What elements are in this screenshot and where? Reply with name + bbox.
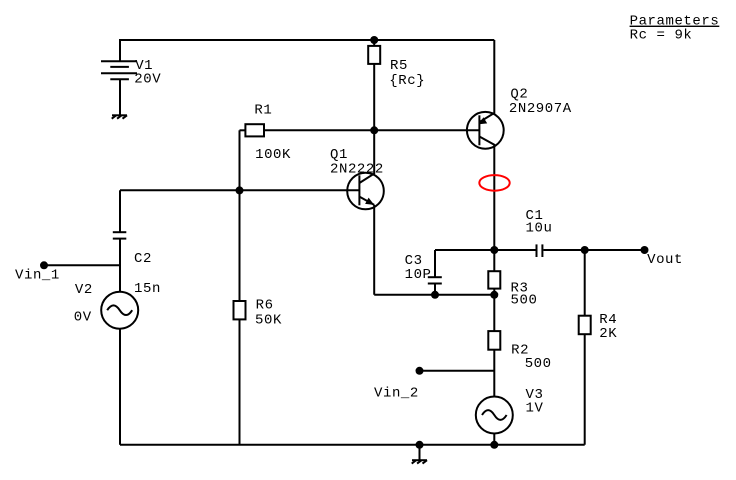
transistor Q1 bbox=[347, 130, 384, 209]
wire battery to ground bbox=[119, 79, 121, 115]
svg-text:10P: 10P bbox=[405, 267, 432, 283]
capacitor C1 bbox=[537, 244, 543, 257]
resistor R4 bbox=[579, 250, 591, 445]
junction node C1 / R4 bbox=[581, 246, 589, 254]
svg-text:2N2907A: 2N2907A bbox=[509, 101, 572, 117]
source V2 bbox=[101, 292, 138, 329]
svg-text:500: 500 bbox=[525, 356, 552, 372]
junction node R5 top bbox=[370, 36, 378, 44]
junction node R3 bottom bbox=[490, 291, 498, 299]
svg-text:1V: 1V bbox=[526, 401, 544, 417]
wire R1 to Q2 base bbox=[264, 129, 479, 131]
wire C2 to V2 bbox=[119, 239, 121, 292]
svg-text:50K: 50K bbox=[255, 312, 282, 328]
svg-text:R5: R5 bbox=[390, 58, 408, 74]
svg-text:C2: C2 bbox=[134, 251, 152, 267]
capacitor C2 bbox=[113, 232, 127, 238]
svg-text:Q2: Q2 bbox=[510, 87, 528, 103]
resistor R6 bbox=[234, 190, 246, 444]
svg-text:20V: 20V bbox=[134, 71, 161, 87]
junction node R1/R6 bbox=[236, 186, 244, 194]
svg-text:2K: 2K bbox=[599, 326, 617, 342]
svg-text:10u: 10u bbox=[526, 220, 553, 236]
wire C3 top rail bbox=[435, 249, 536, 251]
resistor R5 bbox=[368, 40, 380, 130]
capacitor C3 bbox=[428, 250, 442, 295]
svg-text:100K: 100K bbox=[255, 147, 291, 163]
wire Vin_2 bbox=[420, 370, 495, 372]
wire ground stub bbox=[419, 445, 421, 460]
svg-text:15n: 15n bbox=[134, 281, 161, 297]
transistor Q2 bbox=[467, 40, 504, 250]
wire Vin_1 bbox=[44, 264, 120, 266]
svg-text:0V: 0V bbox=[74, 309, 92, 325]
wire bottom rail bbox=[120, 444, 585, 446]
node Vin_2 terminal bbox=[416, 367, 424, 375]
svg-text:500: 500 bbox=[511, 292, 538, 308]
wire emitter rail to R3 bottom bbox=[374, 294, 494, 296]
wire Q1 base rail bbox=[120, 189, 359, 191]
svg-text:R6: R6 bbox=[256, 297, 274, 313]
arrowhead Q1 emitter bbox=[365, 198, 374, 205]
junction node C3 bottom bbox=[431, 291, 439, 299]
svg-text:R1: R1 bbox=[254, 102, 272, 118]
ground (under V1) bbox=[112, 115, 127, 118]
svg-text:Q1: Q1 bbox=[330, 147, 348, 163]
ground (bottom) bbox=[412, 460, 427, 463]
wire top rail bbox=[120, 39, 494, 41]
wire left branch down to C2 bbox=[119, 190, 121, 232]
node Vin_1 terminal bbox=[40, 261, 48, 269]
wire C1 to Vout bbox=[543, 249, 644, 251]
wire V3 to bottom rail bbox=[493, 433, 495, 445]
svg-text:Rc = 9k: Rc = 9k bbox=[630, 28, 693, 44]
resistor R1 bbox=[245, 124, 264, 136]
wire Q1 emitter down bbox=[373, 205, 375, 295]
battery V1 bbox=[101, 61, 137, 79]
current probe marker (red ellipse) bbox=[479, 175, 509, 191]
node Vout terminal bbox=[641, 246, 649, 254]
svg-text:Vin_1: Vin_1 bbox=[15, 268, 60, 284]
arrowhead Q2 emitter bbox=[479, 117, 487, 124]
junction node V3 bottom bbox=[490, 441, 498, 449]
svg-text:V2: V2 bbox=[75, 282, 93, 298]
source V3 bbox=[476, 397, 513, 434]
junction node R5 bottom bbox=[370, 126, 378, 134]
wire R1 corner down to junction bbox=[239, 130, 241, 190]
resistor R3 bbox=[488, 250, 500, 295]
svg-text:Vin_2: Vin_2 bbox=[374, 385, 419, 401]
svg-text:{Rc}: {Rc} bbox=[389, 73, 425, 89]
svg-text:2N2222: 2N2222 bbox=[330, 162, 384, 178]
junction node ground bbox=[416, 441, 424, 449]
wire R1 left stub bbox=[240, 129, 246, 131]
wire V2 to bottom rail bbox=[119, 329, 121, 445]
resistor R2 bbox=[488, 295, 500, 397]
junction node Q2 collector / C1 bbox=[490, 246, 498, 254]
wire battery top stub bbox=[119, 39, 121, 61]
svg-text:Vout: Vout bbox=[647, 252, 683, 268]
